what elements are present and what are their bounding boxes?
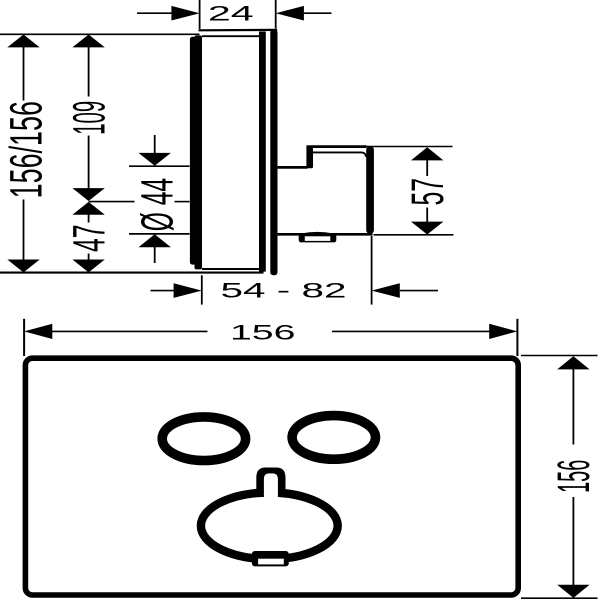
svg-text:47: 47	[64, 224, 115, 252]
dim 54-82 right extension line	[371, 236, 373, 305]
dim 57 lower stem	[426, 208, 428, 223]
dim 109 line lower	[88, 136, 90, 189]
svg-text:156/156: 156/156	[0, 101, 51, 198]
thermostat key stem face	[264, 473, 278, 499]
dim D44 bottom extension line	[129, 233, 190, 235]
dim D44 top arrow	[139, 153, 171, 166]
dim 156/156 top arrow	[7, 35, 39, 48]
thermostat ring	[201, 493, 338, 560]
wall plate side view: inner front bar	[259, 32, 266, 272]
dim 54-82 right tail	[400, 290, 438, 292]
dim 57 bottom arrow	[411, 222, 443, 235]
dim 156 width right extension line	[516, 319, 518, 356]
svg-text:Ø 44: Ø 44	[132, 178, 183, 231]
front plate	[25, 358, 518, 595]
dim 156/156 bottom arrow	[7, 260, 39, 273]
dim D44 top stem	[154, 135, 156, 154]
dim 54-82 right arrow	[372, 283, 400, 298]
dim 24 left arrow	[171, 6, 199, 21]
dim 156 width left arrow	[24, 324, 52, 339]
dim 24 right tail	[304, 12, 332, 14]
dim D44 top extension line	[129, 165, 190, 167]
select ring left	[162, 417, 245, 461]
handle side view: cap outline	[307, 145, 367, 148]
svg-text:109: 109	[65, 101, 115, 135]
select ring right	[292, 416, 375, 460]
thermostat safety button face	[258, 559, 284, 565]
dim 156 width line left	[52, 330, 208, 332]
wall plate side view: inner bottom edge	[202, 268, 260, 270]
dim 156 width right arrow	[489, 324, 517, 339]
dim 156/156 line lower	[23, 200, 25, 261]
dim 57 upper stem	[426, 160, 428, 176]
dim 24 right arrow	[276, 6, 304, 21]
svg-text:57: 57	[402, 178, 453, 206]
wall plate side view: top edge	[199, 29, 278, 32]
handle side view: safety button outline	[302, 233, 333, 235]
side view: bottom datum extension line	[0, 272, 264, 274]
dim 109 line upper	[88, 46, 90, 97]
wall plate side view: front face bar	[270, 30, 277, 276]
dim 24 left tail	[137, 12, 172, 14]
thermostat safety button outline	[252, 551, 289, 566]
wall plate side view: inner top edge	[202, 35, 260, 37]
handle side view: top edge	[278, 166, 308, 169]
dim 156 height lower stem	[572, 497, 574, 586]
wall plate side view: back flange	[190, 37, 197, 265]
handle centre reference line right segment	[175, 201, 190, 203]
dim 156 width line right	[332, 330, 490, 332]
dim D44 bottom stem	[154, 247, 156, 263]
svg-text:156: 156	[230, 321, 295, 344]
handle side view: cap inner line	[313, 152, 366, 157]
dim 54-82 left tail	[151, 290, 175, 292]
dim 47 bottom arrow	[72, 260, 104, 273]
dim 156 width left extension line	[23, 319, 25, 356]
dim 109 top arrow	[72, 35, 104, 48]
dim 109 bottom arrow (bowtie upper)	[72, 188, 104, 201]
dim 156 height upper stem	[572, 369, 574, 445]
dim 57 top extension line	[367, 146, 453, 148]
dim 54-82 left extension line	[201, 275, 203, 304]
dim 24 left extension line	[199, 0, 201, 29]
dim 47 top arrow (bowtie lower)	[72, 202, 104, 215]
dim 54-82 left arrow	[174, 283, 202, 298]
dim 57 top arrow	[411, 147, 443, 160]
handle side view: safety button face	[305, 236, 331, 241]
dim 57 bottom extension line	[374, 234, 454, 236]
dim 156 height bottom extension line	[521, 597, 598, 599]
handle side view: cap left edge	[306, 146, 313, 169]
handle side view: bottom edge	[278, 233, 373, 236]
dim D44 bottom arrow	[139, 234, 171, 247]
handle side view: right face	[366, 147, 374, 234]
dim 156 height top extension line	[521, 355, 598, 357]
dim 156 height bottom arrow	[557, 585, 589, 598]
dim 47 line upper	[88, 214, 90, 223]
handle centre reference line left segment	[89, 201, 135, 203]
dim 156 height top arrow	[557, 356, 589, 369]
svg-text:24: 24	[208, 1, 254, 25]
side view: top datum extension line	[0, 33, 200, 35]
thermostat key stem outline	[256, 468, 285, 498]
dim 156/156 line upper	[23, 46, 25, 101]
svg-text:156: 156	[550, 460, 599, 493]
svg-text:54 - 82: 54 - 82	[220, 279, 346, 302]
dim 47 line lower	[88, 254, 90, 261]
dim 24 right extension line	[275, 0, 277, 29]
